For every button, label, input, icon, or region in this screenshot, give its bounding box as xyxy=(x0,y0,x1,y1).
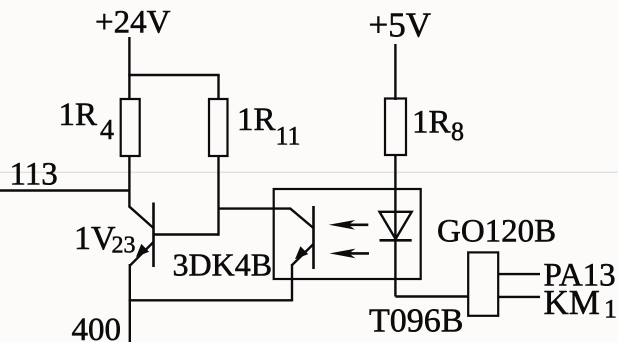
wire KM1 xyxy=(498,296,540,298)
resistor 1R8 xyxy=(385,99,406,156)
svg-text:+24V: +24V xyxy=(95,5,171,41)
wire R11 bottom lead xyxy=(217,156,219,236)
optocoupler box xyxy=(274,189,421,279)
light arrow lower head xyxy=(330,249,356,259)
transistor V23 emitter xyxy=(130,242,153,265)
svg-text:4: 4 xyxy=(100,115,114,146)
svg-text:400: 400 xyxy=(72,312,122,342)
wire R4 bottom lead xyxy=(128,156,130,208)
light arrow upper shaft xyxy=(344,224,368,227)
transistor V23 emitter arrowhead xyxy=(136,244,149,257)
transistor V23 collector xyxy=(154,233,219,235)
wire PA13 xyxy=(498,273,540,275)
phototransistor emitter arrowhead xyxy=(295,246,308,259)
resistor 1R4 xyxy=(121,99,140,156)
LED cathode bar xyxy=(380,239,412,242)
light arrow lower shaft xyxy=(344,252,369,255)
svg-text:1: 1 xyxy=(604,295,617,324)
transistor V23 base bar xyxy=(152,203,155,268)
resistor 1R11 xyxy=(209,99,228,156)
wire LED to connector box xyxy=(395,295,468,297)
svg-text:T096B: T096B xyxy=(369,303,463,340)
svg-text:GO120B: GO120B xyxy=(437,214,556,250)
faint scan streak line xyxy=(0,171,618,173)
svg-text:1R: 1R xyxy=(412,104,451,140)
wire +24V branch horizontal xyxy=(128,74,220,76)
svg-text:8: 8 xyxy=(451,117,464,146)
svg-text:1R: 1R xyxy=(59,97,98,133)
wire collector branch to optocoupler xyxy=(219,207,292,209)
wire photo emitter drop xyxy=(291,264,293,301)
wire R8 bottom lead xyxy=(394,155,396,240)
svg-text:3DK4B: 3DK4B xyxy=(173,247,273,283)
wire R4 top lead xyxy=(128,75,130,100)
wire +5V vertical xyxy=(394,44,396,100)
wire LED cathode drop xyxy=(394,240,396,296)
phototransistor base bar xyxy=(312,206,315,269)
svg-text:1V: 1V xyxy=(74,220,116,257)
connector GO120B box xyxy=(468,252,498,315)
svg-text:+5V: +5V xyxy=(369,5,432,44)
svg-text:23: 23 xyxy=(112,233,136,259)
wire base lead diagonal xyxy=(129,206,154,228)
wire V23 emitter drop xyxy=(129,264,131,342)
LED anode triangle xyxy=(380,212,412,239)
svg-text:KM: KM xyxy=(544,283,600,322)
phototransistor emitter xyxy=(292,244,314,266)
wire +24V vertical xyxy=(128,37,130,75)
wire emitter bottom bus xyxy=(129,299,292,301)
svg-text:11: 11 xyxy=(276,122,301,151)
svg-text:113: 113 xyxy=(10,157,58,193)
light arrow upper head xyxy=(329,220,355,230)
wire 113 input xyxy=(0,189,129,191)
phototransistor collector diagonal xyxy=(290,208,314,228)
svg-text:1R: 1R xyxy=(237,102,276,138)
wire R11 top lead xyxy=(217,75,219,100)
